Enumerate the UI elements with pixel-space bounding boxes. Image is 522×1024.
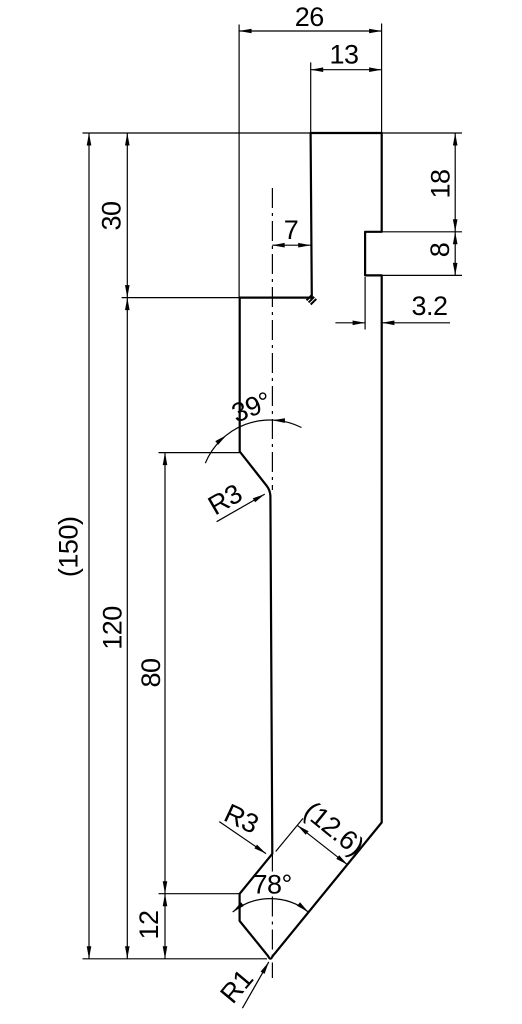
radius label R3 (upper fillet) xyxy=(217,494,265,522)
dimension (150) overall height xyxy=(88,133,90,959)
dimension 3.2 (groove depth) xyxy=(335,322,365,324)
extension line, x=239 (26 dim left) xyxy=(238,25,240,298)
extension line, groove top y=231.8 xyxy=(365,231,462,233)
dimension 120 xyxy=(126,298,128,959)
angle dimension 78 degrees (tip angle) xyxy=(233,899,309,912)
svg-text:120: 120 xyxy=(97,606,127,650)
svg-text:30: 30 xyxy=(96,201,126,230)
svg-text:13: 13 xyxy=(329,39,358,69)
dimension (12.6) flank width xyxy=(297,825,347,865)
dimension 13 xyxy=(311,69,382,71)
extension line, x=310.7 (13 dim left) xyxy=(310,62,312,133)
radius label R3 (lower corner) xyxy=(219,822,266,854)
extension line, y=893.7 (80 bottom / 12 top) xyxy=(159,893,240,895)
dimension 7 xyxy=(272,244,311,246)
svg-text:12: 12 xyxy=(134,910,164,939)
extension line, top face y=133 xyxy=(83,132,463,134)
svg-text:26: 26 xyxy=(295,2,324,32)
svg-text:3.2: 3.2 xyxy=(411,291,447,321)
svg-text:8: 8 xyxy=(425,243,455,258)
extension line, groove bottom y=275.4 xyxy=(365,274,462,276)
svg-text:39°: 39° xyxy=(227,386,275,429)
extension line, bottom y=958.8 xyxy=(83,958,268,960)
svg-text:(150): (150) xyxy=(53,517,83,578)
svg-text:80: 80 xyxy=(136,658,166,687)
angle dimension 39 degrees xyxy=(205,420,301,463)
extension line, x=381.6 (26/13 dim right) xyxy=(381,24,383,134)
dimension 8 (groove height) xyxy=(453,232,458,245)
svg-text:7: 7 xyxy=(284,215,299,245)
dimension 80 xyxy=(164,453,166,894)
dimension 12 (tip height) xyxy=(164,894,166,959)
svg-text:18: 18 xyxy=(425,169,455,198)
svg-text:R1: R1 xyxy=(214,964,259,1009)
dimension 30 (shank height) xyxy=(126,133,128,298)
extension line, y=452.6 (80 dim top) xyxy=(159,452,240,454)
dimension 18 (right side) xyxy=(454,133,456,232)
svg-text:R3: R3 xyxy=(203,478,247,521)
radius label R1 (tip radius) xyxy=(242,962,268,1008)
dimension 26 (top width) xyxy=(239,30,382,32)
svg-text:R3: R3 xyxy=(220,798,263,839)
svg-text:78°: 78° xyxy=(253,869,292,899)
extension line for (12.6), parallel to flank xyxy=(276,818,303,851)
extension line, x=365.1 (3.2 dim) xyxy=(364,277,366,330)
extension line, shoulder y=297.6 xyxy=(122,297,240,299)
part outline (punch profile) xyxy=(240,133,382,959)
centerline (vertical axis, dash-dot) xyxy=(271,188,273,978)
serration mark at shank/shoulder corner xyxy=(307,295,317,305)
